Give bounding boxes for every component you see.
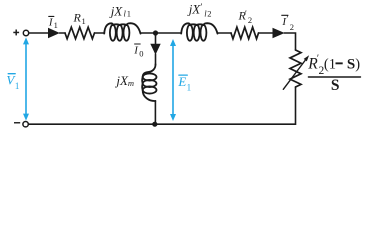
wire: arrow to coil jXm — [155, 54, 157, 65]
label jXm — [114, 73, 134, 88]
svg-text:jX: jX — [114, 73, 129, 88]
current arrow I0 (filled triangle pointing down) — [150, 44, 160, 55]
current arrow I2' (filled triangle) — [273, 28, 285, 39]
inductor jXl2' (coil of 4 loops) — [181, 23, 217, 41]
terminal bottom-left (open circle) — [23, 122, 28, 127]
label I1 (overbar I sub 1) — [48, 16, 58, 30]
wire: node down to I0 arrow — [155, 33, 157, 45]
label V1 (blue) — [6, 73, 19, 91]
svg-text:2: 2 — [290, 22, 294, 32]
variable resistor diagonal arrow — [283, 55, 309, 89]
terminal top-left (open circle) — [23, 30, 28, 35]
svg-text:′: ′ — [245, 10, 247, 20]
svg-text:0: 0 — [139, 49, 143, 59]
inductor jXl1 (coil of 4 loops) — [104, 23, 140, 41]
svg-text:): ) — [355, 56, 360, 72]
svg-text:2: 2 — [248, 15, 252, 25]
wire: R1 to coil1 — [95, 32, 105, 34]
svg-text:1: 1 — [54, 20, 58, 30]
node B (junction dot on bottom wire) — [152, 122, 157, 127]
wire: coil jXm to bottom wire — [154, 101, 156, 124]
node A (junction dot on top wire) — [153, 30, 158, 35]
current arrow I1 (filled triangle) — [48, 28, 60, 39]
svg-text:(1: (1 — [324, 56, 336, 72]
svg-text:m: m — [128, 78, 134, 88]
svg-text:′: ′ — [317, 54, 319, 65]
label R2' — [238, 9, 253, 25]
label I0 — [133, 44, 143, 59]
load resistor R2'(1-S)/S vertical zigzag — [290, 50, 301, 87]
wire: arrow to R1 — [60, 32, 66, 34]
wire: load resistor to bottom-right corner and left — [29, 87, 296, 124]
label R1 — [73, 10, 86, 26]
svg-text:1: 1 — [15, 81, 20, 91]
svg-text:2: 2 — [207, 9, 211, 19]
label I2' — [281, 15, 294, 32]
svg-text:′: ′ — [200, 3, 202, 13]
wire: R2' to I2' arrow — [259, 32, 274, 34]
voltage arrow V1 (blue, double headed) — [23, 37, 29, 120]
label jXl1 — [109, 4, 131, 19]
resistor R2' zigzag — [231, 27, 258, 39]
inductor jXm (vertical coil of 4 loops) — [142, 64, 156, 101]
svg-text:S: S — [331, 77, 340, 94]
wire: coil1 to coil2 (through node) — [141, 32, 181, 34]
label R2'(1-S)/S fraction — [307, 54, 360, 95]
emf arrow E1 (blue, double headed) — [170, 39, 176, 121]
svg-text:S: S — [347, 56, 355, 72]
svg-text:E: E — [177, 74, 186, 89]
label E1 (blue) — [177, 74, 191, 93]
svg-text:′: ′ — [286, 15, 288, 25]
minus sign at input — [14, 122, 20, 124]
svg-text:R: R — [73, 10, 82, 24]
svg-text:1: 1 — [82, 16, 86, 26]
svg-text:jX: jX — [109, 4, 124, 19]
plus sign (+) at input — [13, 30, 19, 36]
resistor R1 zigzag — [65, 27, 94, 39]
wire top: terminal to I1 arrow — [29, 32, 49, 34]
wire: coil2 to R2' — [218, 32, 231, 34]
svg-text:1: 1 — [187, 83, 192, 93]
svg-text:1: 1 — [127, 9, 131, 19]
wire: arrow to top-right corner and down — [284, 33, 295, 50]
svg-text:jX: jX — [187, 2, 202, 17]
label jXl2' — [187, 2, 212, 19]
